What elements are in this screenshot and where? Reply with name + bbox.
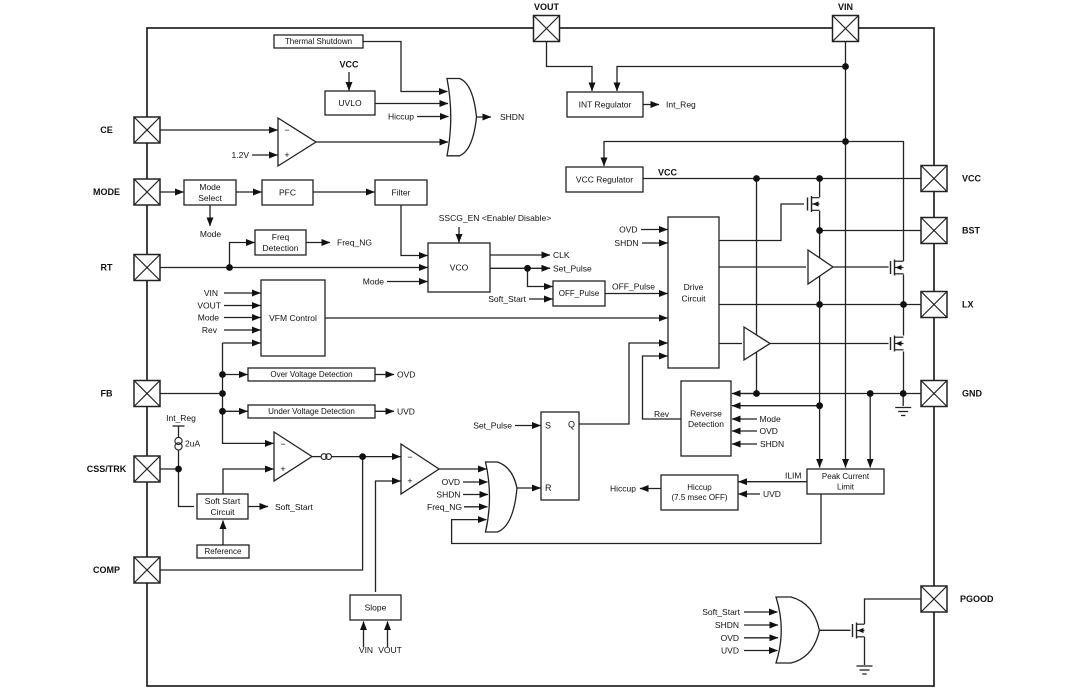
ground GND rail [895,408,911,416]
wire Freq_NG to reset OR gate [464,506,488,508]
block Thermal Shutdown [274,35,363,48]
svg-text:Hiccup: Hiccup [687,483,712,492]
svg-text:SHDN: SHDN [500,112,524,122]
wire Int_Reg to current source [178,426,180,437]
block Hiccup [661,475,738,510]
svg-text:Soft_Start: Soft_Start [275,502,313,512]
pin LX [921,292,947,318]
wire Mode to VFM Control [224,317,261,319]
pin COMP [134,557,160,583]
wire CE pin to comparator inverting input [160,129,278,131]
wire Soft_Start to OFF_Pulse block [529,298,553,300]
svg-text:PFC: PFC [279,188,296,198]
node CSS/TRK junction [175,466,182,473]
block Over Voltage Detection [248,368,375,381]
node FB to OVD junction [219,371,226,378]
svg-text:−: − [284,125,289,135]
wire low-side buffer to low-side MOSFET gate [770,343,889,345]
buffer low-side driver [744,327,770,360]
wire high-side buffer to high-side MOSFET gate [833,266,889,268]
svg-text:VOUT: VOUT [197,301,221,311]
wire 1.2V to comparator non-inverting input [252,154,278,156]
svg-text:Slope: Slope [365,603,387,613]
wire LX sense riser [819,305,821,406]
svg-text:Under Voltage Detection: Under Voltage Detection [268,407,355,416]
node VIN split to INT Regulator [842,63,849,70]
svg-text:Q: Q [568,420,575,430]
node Set_Pulse junction [524,265,531,272]
wire UVD into Hiccup [739,493,761,495]
svg-text:Reverse: Reverse [690,408,722,418]
svg-text:Soft_Start: Soft_Start [488,294,526,304]
wire comp node to PWM comparator inverting input [363,456,401,458]
wire VIN to VCC Regulator [604,142,846,167]
wire SHDN into Reverse Detection [732,443,757,445]
svg-text:Mode: Mode [760,414,782,424]
block VCO [428,243,490,292]
wire VFM Control output to Drive Circuit [325,317,668,319]
svg-text:BST: BST [962,226,981,236]
block INT Regulator [567,92,643,117]
wire low-side MOSFET source to GND [903,352,905,394]
PGOOD OR gate [776,597,819,663]
svg-text:SHDN: SHDN [614,238,638,248]
wire MODE pin to Mode Select [160,191,184,193]
svg-text:R: R [545,483,552,493]
block Under Voltage Detection [248,405,375,418]
wire PGOOD MOSFET drain to PGOOD pin [865,599,922,624]
svg-text:Freq_NG: Freq_NG [337,238,372,248]
transistor high-side MOSFET [891,260,904,276]
pin GND [921,381,947,407]
pin CE [134,117,160,143]
svg-text:(7.5 msec OFF): (7.5 msec OFF) [671,493,727,502]
wire VCC Regulator output to VCC pin [643,178,921,180]
block OFF_Pulse [553,281,605,306]
wire FB node to Under Voltage Detection [223,410,248,412]
svg-text:Int_Reg: Int_Reg [666,100,696,110]
wire PWM comparator output to reset OR gate [439,468,487,470]
node MOSFET source GND junction [900,390,907,397]
wire SHDN to reset OR gate [463,494,488,496]
wire CSS/TRK pin to node [160,468,179,470]
svg-text:Thermal Shutdown: Thermal Shutdown [285,37,352,46]
node VIN split to VCC Regulator and power MOSFET [842,138,849,145]
wire UVD to PGOOD OR gate [744,650,778,652]
node BST rail junction [816,227,823,234]
wire PGOOD OR gate to PGOOD MOSFET gate [819,629,850,631]
svg-text:OVD: OVD [619,225,637,235]
svg-text:Int_Reg: Int_Reg [166,413,196,423]
wire SSCG_EN to VCO [458,227,460,243]
svg-text:Mode: Mode [198,313,220,323]
wire FB riser to error amp inverting input [223,343,274,443]
op-amp CE comparator [278,118,316,166]
wire SHDN to PGOOD OR gate [744,624,778,626]
node FB junction [219,390,226,397]
wire PGOOD MOSFET source to ground [864,637,866,665]
svg-text:2uA: 2uA [185,439,200,449]
node LX sense junction [816,402,823,409]
wire chopper to comp node [332,456,363,458]
svg-text:VCC: VCC [962,174,982,184]
svg-text:INT Regulator: INT Regulator [579,100,632,110]
wire VCC to bootstrap MOSFET drain [819,179,821,198]
block VCC Regulator [566,167,643,192]
svg-text:UVD: UVD [763,489,781,499]
svg-text:Peak Current: Peak Current [822,472,870,481]
svg-text:VOUT: VOUT [378,645,402,655]
block Mode Select [184,180,236,205]
svg-text:Hiccup: Hiccup [388,112,414,122]
block Reverse Detection [681,381,731,456]
reset OR gate [486,462,518,532]
pin MODE [134,179,160,205]
wire VOUT to VFM Control [224,305,261,307]
buffer high-side driver [808,250,833,284]
svg-text:Mode: Mode [363,277,385,287]
wire FB pin to FB node [160,393,223,395]
block Filter [375,180,427,205]
wire INT Regulator output to Int_Reg [643,104,659,106]
wire FB node to Over Voltage Detection [223,374,248,376]
transistor bootstrap MOSFET [808,196,820,212]
svg-text:VFM Control: VFM Control [269,313,317,323]
block VFM Control [261,280,325,356]
ground PGOOD MOSFET [857,666,873,674]
svg-text:VCO: VCO [450,263,469,273]
svg-text:Circuit: Circuit [681,293,706,303]
wire Soft Start Circuit to Soft_Start [248,506,268,508]
svg-text:SHDN: SHDN [715,620,739,630]
op-amp error amplifier [274,432,312,481]
pin VIN [833,16,859,42]
wire PFC to Filter [313,191,375,193]
svg-text:MODE: MODE [93,187,120,197]
wire reset OR gate to flip-flop R input [517,487,541,489]
svg-text:VIN: VIN [359,645,373,655]
wire VIN to INT Regulator [617,67,846,92]
wire VCO to Set_Pulse [490,267,550,269]
svg-text:SHDN: SHDN [436,490,460,500]
wire Mode Select to PFC [236,191,262,193]
wire VCO to CLK [490,254,550,256]
block Reference [197,545,249,558]
svg-text:OFF_Pulse: OFF_Pulse [612,282,655,292]
wire CSS node to Soft Start Circuit [179,450,195,507]
node RT junction [226,264,233,271]
wire OVD into Reverse Detection [732,430,757,432]
svg-text:VCC: VCC [658,168,678,178]
block Peak Current Limit [807,469,884,494]
svg-text:Set_Pulse: Set_Pulse [553,263,592,273]
wire VOUT up to Slope [387,622,389,648]
svg-text:Detection: Detection [688,419,724,429]
svg-text:LX: LX [962,300,974,310]
svg-text:−: − [280,439,285,449]
svg-text:Rev: Rev [202,325,218,335]
svg-text:Soft Start: Soft Start [205,496,241,506]
svg-text:Set_Pulse: Set_Pulse [473,421,512,431]
wire Set_Pulse to flip-flop S input [515,425,541,427]
svg-text:Select: Select [198,193,222,203]
svg-text:VCC: VCC [339,60,359,70]
wire Set_Pulse node to OFF_Pulse block [528,268,553,286]
node LX MOSFET junction [900,301,907,308]
node GND sense junction [867,390,874,397]
wire Drive Circuit to bootstrap MOSFET gate [719,204,804,241]
wire VCC rail riser [756,179,758,394]
svg-text:VIN: VIN [204,288,218,298]
wire Rev from Reverse Detection to Drive Circuit [643,356,682,419]
wire UVLO to shutdown OR gate [375,103,448,105]
wire GND rail into Reverse Detection [732,393,757,395]
block Slope [350,595,401,620]
wire Mode into Reverse Detection [732,418,757,420]
wire high-side buffer bottom to LX [819,276,821,304]
svg-text:S: S [545,421,551,431]
wire Over Voltage Detection to OVD [375,374,394,376]
svg-text:CSS/TRK: CSS/TRK [87,464,127,474]
wire BST rail to BST pin [820,230,921,232]
transistor low-side MOSFET [891,336,904,352]
wire RT pin to VCO [160,267,428,269]
pin PGOOD [921,586,947,612]
svg-text:OVD: OVD [397,370,415,380]
wire CE comparator output to shutdown OR gate [316,141,448,143]
node FB to UVD junction [219,408,226,415]
svg-text:VOUT: VOUT [534,2,560,12]
svg-text:OFF_Pulse: OFF_Pulse [559,289,600,298]
svg-text:CE: CE [100,125,113,135]
svg-text:+: + [407,476,412,486]
IC outer boundary [147,28,934,686]
wire LX sense to Peak Current Limit [819,406,821,468]
block Freq Detection [255,230,306,255]
block Soft Start Circuit [197,494,248,519]
pin BST [921,218,947,244]
current source 2uA [175,437,182,450]
wire shutdown OR gate output to SHDN [477,116,492,118]
wire OVD to reset OR gate [463,481,488,483]
svg-text:Circuit: Circuit [210,507,235,517]
svg-text:Reference: Reference [205,547,242,556]
wire OVD to Drive Circuit [641,229,668,231]
svg-text:+: + [284,150,289,160]
wire flip-flop Q to Drive Circuit [579,343,668,424]
node LX driver junction [816,301,823,308]
svg-text:Mode: Mode [200,229,222,239]
wire Drive Circuit to high-side buffer [719,266,806,268]
svg-text:CLK: CLK [553,250,570,260]
wire OFF_Pulse block to Drive Circuit [605,293,668,295]
wire Peak Current Limit feedback to reset OR gate [452,494,821,544]
wire OVD to PGOOD OR gate [744,637,778,639]
transistor PGOOD MOSFET [853,623,865,639]
wire Hiccup to shutdown OR gate [417,116,449,118]
wire VOUT pin to INT Regulator [547,42,593,92]
svg-text:FB: FB [101,389,113,399]
node GND rail junction [753,390,760,397]
node COMP junction [359,453,366,460]
svg-text:UVLO: UVLO [338,98,362,108]
wire VCC to UVLO [348,72,350,91]
svg-text:COMP: COMP [93,565,120,575]
svg-text:UVD: UVD [721,646,739,656]
svg-text:VIN: VIN [838,2,853,12]
pin RT [134,255,160,281]
wire Freq Detection to Freq_NG [306,242,330,244]
wire VIN to high-side MOSFET drain [846,142,904,262]
wire bootstrap MOSFET source to BST [819,211,821,231]
flip-flop RS latch [541,412,579,500]
svg-text:Freq: Freq [272,232,290,242]
svg-text:−: − [407,452,412,462]
svg-text:VCC Regulator: VCC Regulator [576,175,633,185]
wire Thermal Shutdown to shutdown OR gate [363,42,448,92]
block UVLO [325,91,375,115]
svg-text:UVD: UVD [397,406,415,416]
wire Drive Circuit to low-side buffer [719,343,742,345]
wire GND rail [735,393,922,395]
node VCC rail junction [753,175,760,182]
wire high-side MOSFET source to low-side MOSFET drain [903,275,905,336]
wire VIN rail down to Peak Current Limit [845,67,847,468]
wire GND to ground symbol [902,394,904,407]
wire LX sense into Reverse Detection [732,405,820,407]
wire VIN to VFM Control [224,292,261,294]
shutdown OR gate [447,79,477,156]
wire LX rail from Drive Circuit to LX pin [719,304,921,306]
svg-text:Rev: Rev [654,409,670,419]
op-amp PWM comparator [401,444,439,494]
wire VIN up to Slope [363,622,365,648]
svg-text:1.2V: 1.2V [232,150,250,160]
wire RT node to Freq Detection [230,243,255,268]
node VCC to bootstrap junction [816,175,823,182]
svg-text:Detection: Detection [263,243,299,253]
svg-text:+: + [280,464,285,474]
wire Soft Start Circuit to error amp non-inverting input [223,469,274,494]
wire Hiccup block output to Hiccup signal [640,488,661,490]
wire Reference to Soft Start Circuit [222,521,224,546]
svg-text:Hiccup: Hiccup [610,484,636,494]
block Drive Circuit [668,217,719,368]
pin CSS/TRK [134,456,160,482]
wire ILIM from Peak Current Limit to Hiccup [739,481,808,483]
wire COMP pin to comp node [160,457,363,570]
svg-text:Filter: Filter [392,188,411,198]
wire BST to high-side buffer top [819,231,821,259]
svg-text:GND: GND [962,389,983,399]
wire Mode Select down to Mode [209,205,211,226]
chopper symbol [321,454,331,460]
block PFC [262,180,313,205]
svg-text:SSCG_EN <Enable/ Disable>: SSCG_EN <Enable/ Disable> [439,213,551,223]
pin VCC [921,166,947,192]
wire Slope to PWM comparator non-inverting input [376,481,401,592]
Int_Reg rail tick [173,425,185,427]
svg-text:Limit: Limit [837,482,855,491]
wire Soft_Start to PGOOD OR gate [744,611,778,613]
wire error amp output to chopper [312,456,321,458]
svg-text:Drive: Drive [684,282,704,292]
wire FB node to VFM Control [223,342,261,344]
svg-text:SHDN: SHDN [760,439,784,449]
wire VIN pin down [845,42,847,67]
svg-text:OVD: OVD [760,426,778,436]
wire Mode to VCO [387,281,428,283]
svg-text:RT: RT [101,263,113,273]
wire Filter to VCO [401,205,428,256]
wire Under Voltage Detection to UVD [375,410,394,412]
svg-text:Freq_NG: Freq_NG [427,502,462,512]
svg-text:Over Voltage Detection: Over Voltage Detection [270,370,352,379]
pin FB [134,381,160,407]
svg-text:ILIM: ILIM [785,471,802,481]
svg-text:OVD: OVD [442,477,460,487]
wire GND to Peak Current Limit [869,394,871,468]
wire SHDN to Drive Circuit [642,242,668,244]
svg-text:PGOOD: PGOOD [960,594,994,604]
svg-text:Soft_Start: Soft_Start [702,607,740,617]
svg-text:OVD: OVD [721,633,739,643]
wire Rev to VFM Control [224,329,261,331]
pin VOUT [534,16,560,42]
svg-text:Mode: Mode [199,182,221,192]
